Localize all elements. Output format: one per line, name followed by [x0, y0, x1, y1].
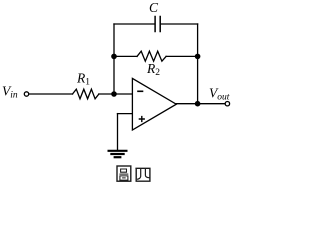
svg-text:R2: R2	[146, 61, 160, 78]
op-amp U1 triangle	[132, 78, 176, 130]
wire right rail	[197, 24, 199, 104]
wire output	[176, 103, 225, 105]
svg-text:Vin: Vin	[2, 83, 18, 100]
ground	[108, 151, 128, 157]
svg-text:C: C	[149, 0, 159, 15]
wire R2 left lead	[114, 55, 137, 57]
capacitor C plates	[155, 17, 160, 32]
wire Vin to R1	[29, 93, 72, 95]
op-amp minus sign	[137, 90, 143, 92]
op-amp plus sign	[139, 116, 145, 122]
wire noninverting input	[118, 113, 133, 115]
wire ground stem	[117, 114, 119, 150]
wire left rail	[113, 24, 115, 94]
junction node R2/C left	[111, 54, 117, 60]
junction node output	[195, 101, 201, 107]
junction node inverting input	[111, 91, 117, 97]
wire R1 to inverting input	[99, 93, 132, 95]
svg-text:Vout: Vout	[209, 85, 230, 102]
wire R2 right lead	[166, 55, 198, 57]
terminal Vin open circle	[24, 92, 28, 96]
wire capacitor right plate to right rail	[161, 23, 198, 25]
caption 四 drawn as strokes	[135, 168, 150, 181]
resistor R2	[137, 51, 166, 61]
caption 圖 (figure) drawn as strokes	[117, 166, 131, 181]
junction node R2/C right	[195, 54, 201, 60]
svg-text:R1: R1	[76, 71, 90, 88]
wire top loop from left rail to capacitor left plate	[114, 23, 154, 25]
terminal Vout open circle	[225, 102, 229, 106]
resistor R1	[73, 89, 99, 99]
